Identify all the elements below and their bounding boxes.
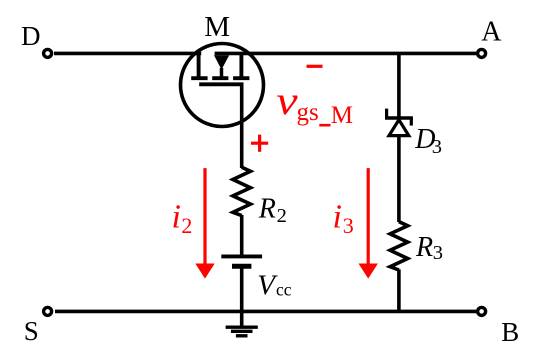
transistor M body arrow — [214, 55, 229, 69]
svg-text:A: A — [481, 16, 502, 47]
resistor R3 — [390, 222, 408, 270]
label plus (red) — [251, 142, 268, 145]
current arrow i3 — [367, 168, 370, 266]
transistor M body circle — [181, 44, 264, 127]
resistor R2 — [233, 167, 251, 215]
svg-text:M: M — [204, 11, 230, 43]
svg-text:3: 3 — [433, 242, 443, 264]
wire A branch down — [397, 53, 401, 118]
wire battery to bottom — [240, 266, 244, 313]
svg-text:D: D — [21, 21, 41, 51]
svg-text:S: S — [24, 316, 39, 346]
svg-text:B: B — [501, 317, 519, 347]
zener diode D3 triangle — [389, 120, 409, 136]
transistor M channel bar right — [233, 76, 249, 80]
wire bottom S-B — [55, 310, 476, 314]
svg-text:2: 2 — [277, 205, 287, 227]
svg-text:3: 3 — [432, 136, 442, 158]
zener diode D3 right tick — [410, 118, 413, 126]
terminal B — [478, 307, 486, 315]
transistor M drain tab — [197, 52, 201, 78]
svg-text:i: i — [172, 199, 181, 236]
current arrow i2 — [203, 168, 206, 266]
terminal S — [44, 307, 52, 315]
battery Vcc plate short — [232, 264, 251, 269]
terminal D — [44, 49, 52, 57]
transistor M channel bar left — [191, 76, 207, 80]
wire R3 to bottom — [397, 269, 401, 311]
battery Vcc plate long — [221, 254, 262, 258]
ground — [240, 311, 244, 325]
svg-text:R: R — [258, 194, 276, 225]
transistor M gate bar — [199, 82, 243, 86]
svg-text:M: M — [331, 102, 353, 129]
wire D3 to R3 — [397, 134, 401, 222]
svg-text:gs: gs — [297, 99, 319, 126]
terminal A — [478, 49, 486, 57]
zener diode D3 cathode bar — [385, 116, 413, 120]
svg-text:R: R — [415, 232, 433, 263]
zener diode D3 left tick — [385, 109, 388, 118]
wire gate down to R2 — [240, 84, 244, 168]
svg-text:2: 2 — [181, 213, 192, 238]
wire top source line to A — [215, 52, 476, 56]
transistor M channel bar middle — [212, 76, 228, 80]
wire R2 to battery — [240, 215, 244, 256]
svg-text:v: v — [276, 79, 298, 123]
svg-text:3: 3 — [343, 213, 354, 238]
svg-text:i: i — [333, 199, 342, 236]
transistor M source tab — [239, 52, 243, 78]
svg-text:cc: cc — [276, 280, 292, 300]
wire top D to drain elbow — [54, 52, 201, 56]
label minus (red) — [307, 65, 323, 68]
